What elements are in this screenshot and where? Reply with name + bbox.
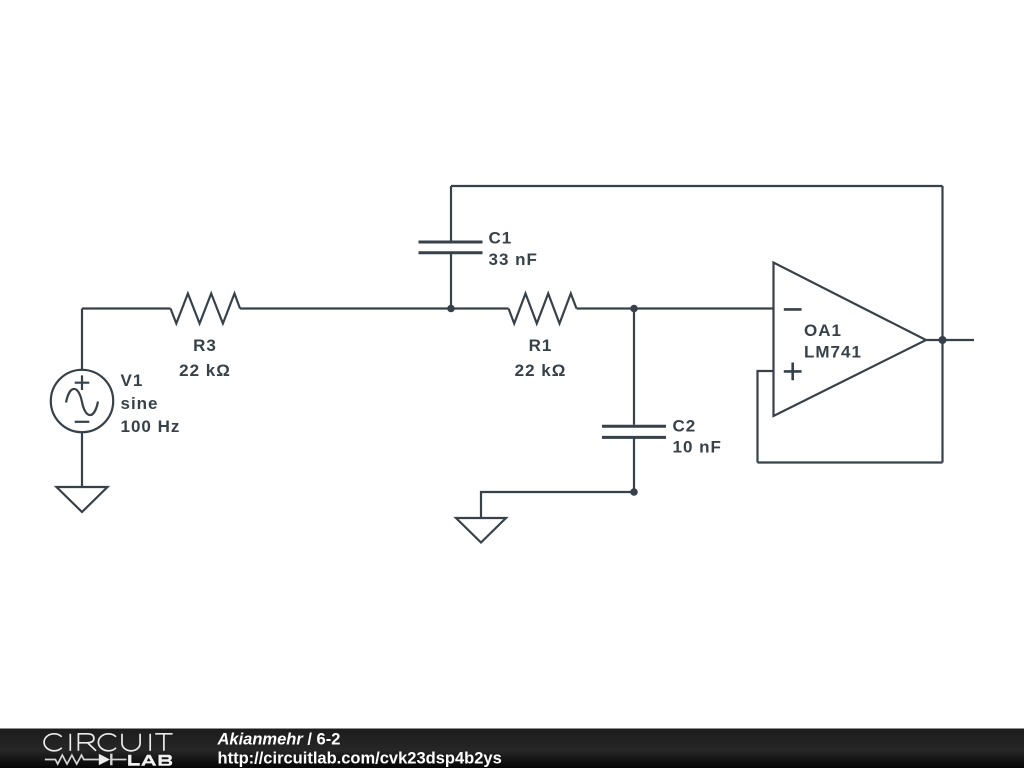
capacitor C2 bottom lead: [633, 439, 635, 493]
footer bar: [0, 729, 1024, 768]
node A junction dot (C1/R3/R1): [447, 305, 455, 313]
op-amp OA1 plus mark: [784, 363, 802, 381]
op-amp OA1 triangle: [774, 263, 927, 417]
op-amp OA1 minus mark: [784, 308, 802, 311]
wire: V1 top lead: [81, 309, 83, 371]
wire: output stub: [926, 339, 974, 341]
CircuitLab logo LAB letters: [128, 755, 172, 766]
resistor R3: [171, 294, 241, 324]
wire: R3 to node A: [240, 307, 509, 309]
svg-text:OA1: OA1: [804, 321, 842, 340]
ground (bottom, near C2): [456, 518, 506, 543]
voltage source V1 plus mark: [75, 375, 90, 390]
svg-text:Akianmehr / 6-2: Akianmehr / 6-2: [217, 730, 341, 748]
svg-text:33 nF: 33 nF: [489, 250, 538, 269]
junction dot C2 bottom: [630, 488, 638, 496]
ground (below V1): [57, 487, 108, 512]
svg-text:22 kΩ: 22 kΩ: [515, 361, 567, 380]
svg-text:LM741: LM741: [804, 342, 862, 361]
output node junction dot: [939, 336, 947, 344]
wire: top feedback: [451, 185, 943, 187]
svg-text:22 kΩ: 22 kΩ: [179, 361, 231, 380]
capacitor C2 plates: [602, 426, 666, 437]
capacitor C1 top lead: [450, 186, 452, 241]
wire: non-inverting input step: [758, 371, 774, 463]
svg-text:100 Hz: 100 Hz: [121, 417, 181, 436]
CircuitLab logo resistor-diode squiggle: [45, 754, 127, 766]
capacitor C2 top lead: [633, 309, 635, 425]
svg-text:V1: V1: [121, 371, 144, 390]
wire: op-amp bottom feedback: [758, 461, 943, 463]
voltage source V1 sine wave: [66, 389, 98, 415]
capacitor C1 bottom lead: [450, 254, 452, 309]
wire: main left (V1 to R3): [82, 307, 171, 309]
capacitor C1 plates: [419, 242, 483, 253]
node B junction dot (R1/C2/op-amp): [630, 305, 638, 313]
resistor R1: [509, 294, 577, 324]
CircuitLab logo CIRCUIT letters: [44, 734, 173, 751]
wire: right vertical feedback: [941, 186, 943, 463]
voltage source V1 minus mark: [75, 421, 90, 423]
wire: R1 to op-amp inverting input: [577, 307, 774, 309]
wire: V1 bottom lead: [81, 432, 83, 487]
svg-text:http://circuitlab.com/cvk23dsp: http://circuitlab.com/cvk23dsp4b2ys: [218, 749, 502, 767]
voltage source V1 circle: [51, 370, 113, 432]
wire: C2 to ground: [481, 492, 634, 518]
svg-text:sine: sine: [121, 394, 159, 413]
svg-text:C1: C1: [489, 228, 513, 247]
svg-text:R3: R3: [193, 336, 217, 355]
svg-text:R1: R1: [529, 336, 553, 355]
CircuitLab logo diode triangle: [99, 754, 110, 766]
svg-text:C2: C2: [673, 417, 697, 436]
svg-text:10 nF: 10 nF: [673, 437, 722, 456]
